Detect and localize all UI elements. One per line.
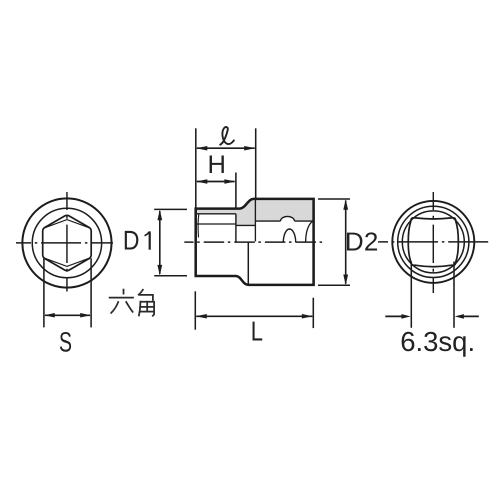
drive hole inner arc [306, 221, 313, 242]
socket body outline [196, 199, 314, 285]
vertical centerline right view [432, 192, 434, 293]
L extension left [194, 291, 196, 329]
kanji kaku (angle) [139, 290, 143, 295]
S dimension line [45, 314, 90, 316]
inner rim circle [32, 208, 101, 277]
D1 witness bottom [154, 275, 187, 277]
l extension right [255, 128, 257, 198]
drive section line right [295, 220, 314, 222]
inner circle [402, 211, 464, 273]
horizontal centerline left view [16, 242, 113, 244]
L extension right [312, 298, 314, 328]
svg-text:H: H [207, 151, 225, 179]
vertical centerline left view [66, 192, 68, 292]
sq dimension arrow left [385, 315, 403, 317]
svg-text:S: S [59, 326, 72, 357]
sq extension left [410, 262, 412, 328]
D2 witness top [318, 198, 350, 200]
horizontal centerline side view [184, 241, 324, 243]
kanji roku (six) [123, 290, 125, 294]
script ell label [220, 127, 234, 145]
hex chamfer bottom [44, 258, 91, 267]
upper step line [254, 199, 256, 242]
outer circle [22, 198, 111, 287]
ball detent ellipse [283, 229, 295, 242]
drive section line left [255, 220, 280, 222]
H dimension line [197, 181, 235, 183]
gray shaded section [196, 199, 314, 226]
svg-text:D: D [123, 226, 140, 256]
svg-text:D2: D2 [345, 227, 378, 257]
hex chamfer edge arc [197, 214, 200, 238]
ball detent bump [281, 216, 295, 221]
S extension line right [90, 258, 92, 327]
hex wall line [197, 213, 236, 215]
l dimension line [197, 147, 255, 149]
D2 arrow line [345, 201, 347, 284]
sq dimension arrow right [462, 315, 479, 317]
hex hole depth line [235, 214, 237, 242]
S extension line left [43, 258, 45, 327]
D1 arrow line [159, 211, 161, 274]
l extension left [195, 128, 197, 208]
hex hole bottom line [197, 223, 236, 225]
horizontal centerline right view [378, 241, 489, 243]
D1 witness top [154, 208, 187, 210]
kanji label : hexagon [110, 290, 155, 316]
hex chamfer top [44, 220, 91, 229]
outer circle [392, 201, 474, 283]
neck section bottom line [236, 224, 256, 226]
middle circle [398, 206, 469, 277]
H extension right [235, 173, 237, 209]
hexagon socket opening [43, 215, 91, 270]
L dimension line [196, 315, 312, 317]
D2 witness bottom [318, 284, 350, 286]
square drive hole [408, 218, 458, 267]
svg-text:L: L [251, 316, 263, 347]
lower step contour line [247, 243, 249, 285]
sq extension right [453, 262, 455, 328]
svg-text:6.3sq.: 6.3sq. [400, 326, 475, 357]
